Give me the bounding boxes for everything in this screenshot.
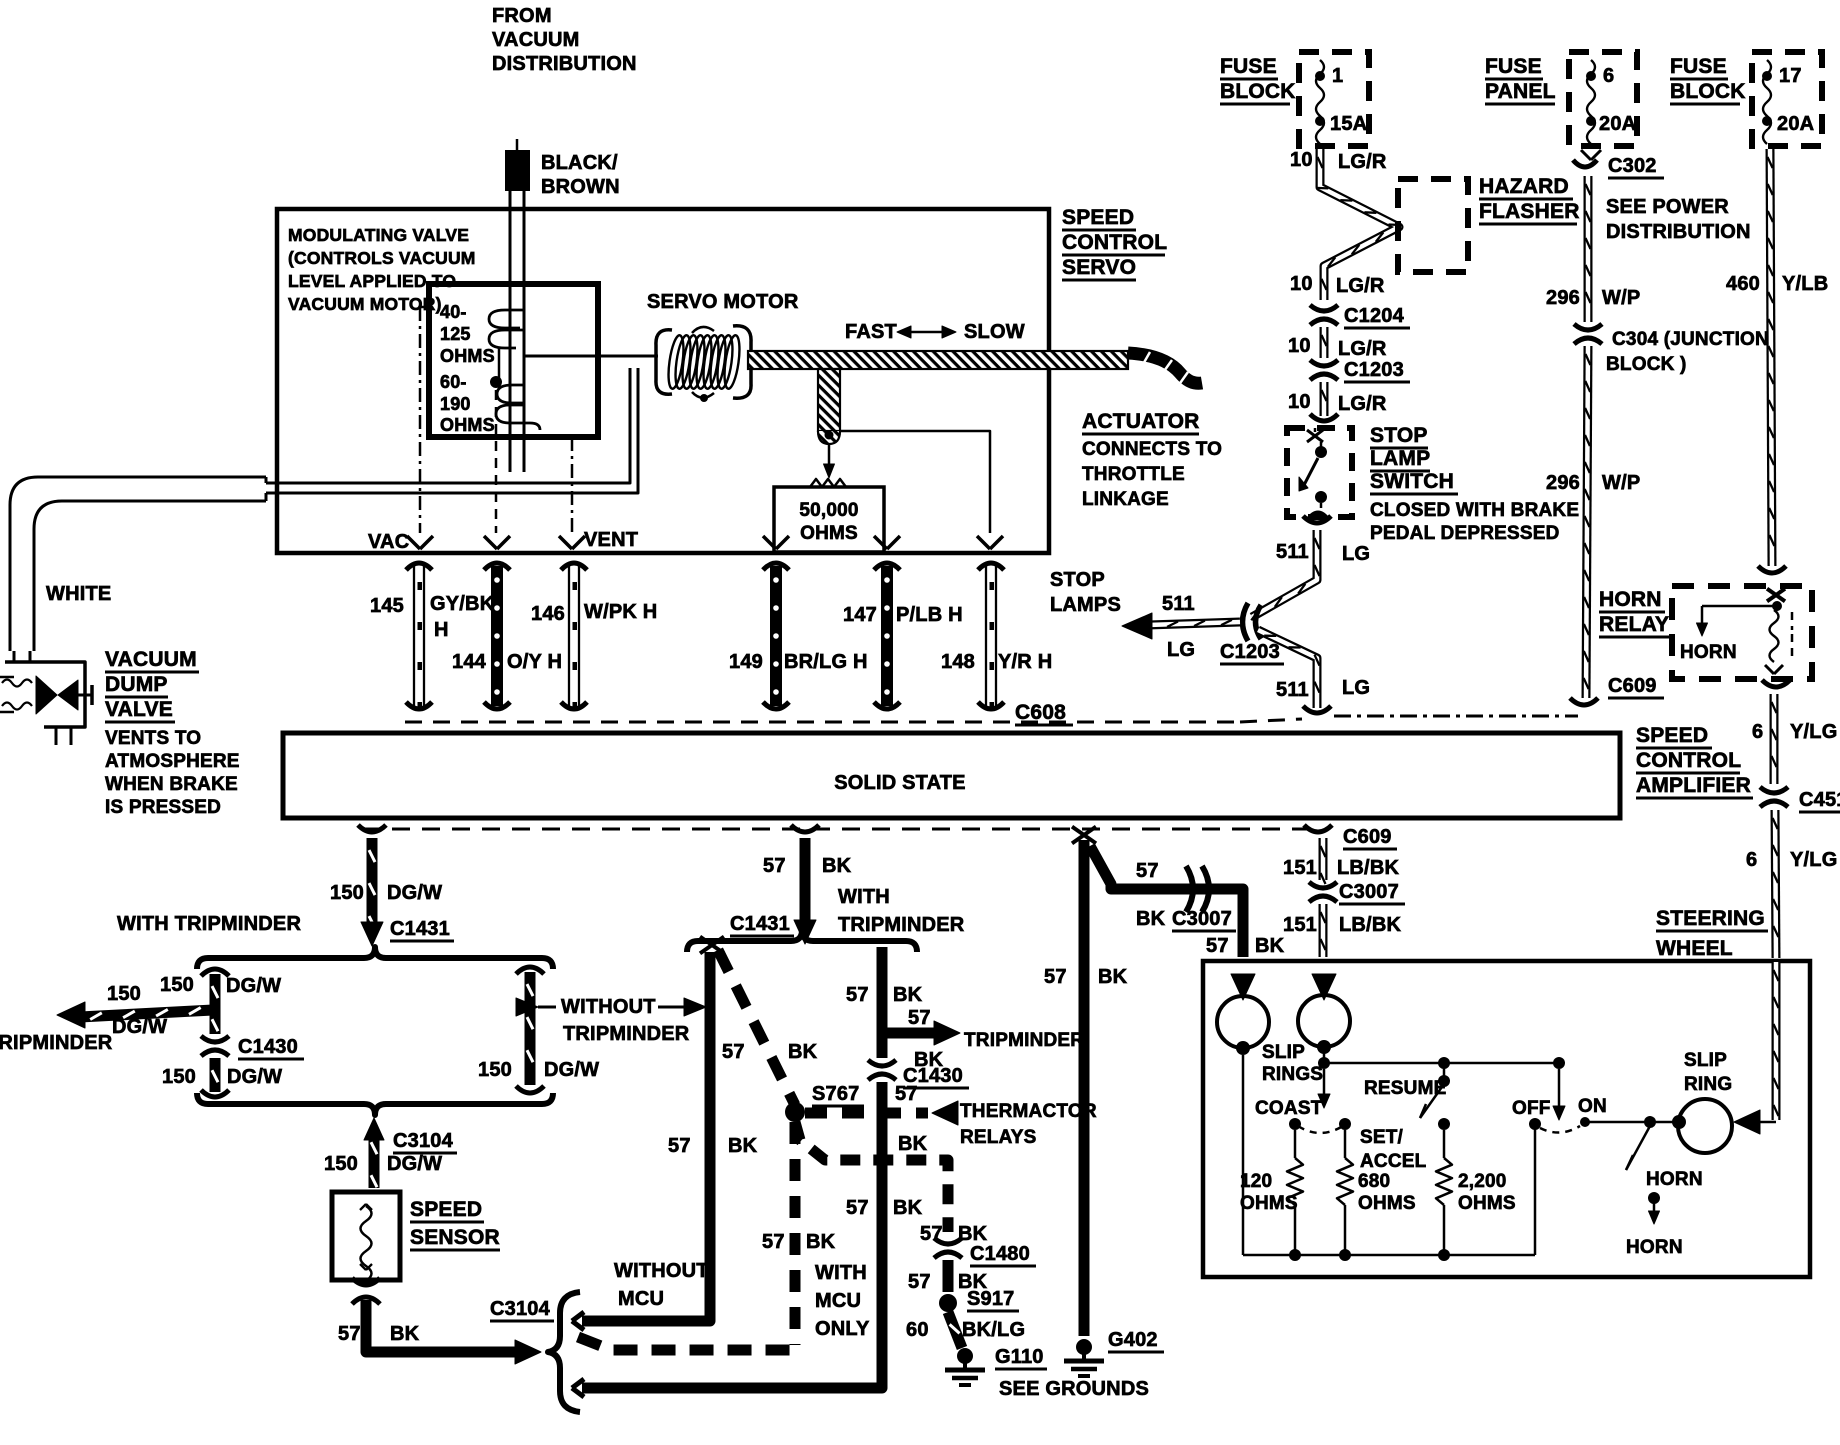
wire ON to slip ring right [1585, 1121, 1679, 1124]
svg-text:TRIPMINDER: TRIPMINDER [964, 1030, 1084, 1051]
svg-text:CONNECTS TO: CONNECTS TO [1082, 439, 1222, 460]
svg-text:BK: BK [822, 855, 852, 877]
svg-text:BK: BK [390, 1323, 420, 1345]
svg-text:1: 1 [1332, 65, 1343, 87]
svg-text:50,000: 50,000 [799, 500, 858, 521]
svg-text:57: 57 [1044, 966, 1067, 988]
terminal wire 146 W/PK H [561, 563, 587, 570]
arrow Y/LG into slip ring [1734, 1110, 1760, 1134]
svg-text:SOLID STATE: SOLID STATE [834, 772, 965, 794]
connector C1480 [934, 1238, 962, 1244]
svg-text:MODULATING VALVE: MODULATING VALVE [288, 225, 469, 245]
svg-text:2,200: 2,200 [1458, 1171, 1507, 1192]
svg-text:CONTROL: CONTROL [1062, 231, 1167, 254]
svg-text:WHITE: WHITE [46, 583, 111, 605]
svg-text:WITH TRIPMINDER: WITH TRIPMINDER [117, 913, 301, 935]
slip ring circle 1 [1217, 996, 1269, 1048]
terminal wire 149 BR/LG H [763, 563, 789, 570]
modulating valve inner box [429, 284, 598, 437]
branch 150 DG/W to tripminder (left arrow) [80, 1010, 213, 1017]
svg-text:MCU: MCU [815, 1290, 861, 1312]
wire Y/LG inside box [1772, 962, 1781, 1120]
svg-text:BK: BK [728, 1135, 758, 1157]
svg-text:BK: BK [1255, 935, 1285, 957]
resistor 2200 ohms [1443, 1130, 1446, 1158]
svg-text:C1430: C1430 [903, 1065, 963, 1087]
svg-text:SLIP: SLIP [1684, 1050, 1727, 1071]
svg-text:H: H [434, 619, 449, 641]
wire 150 DG/W amplifier to C1431 [358, 825, 386, 832]
wire 511 LG below switch [1303, 516, 1331, 523]
svg-text:151: 151 [1283, 857, 1317, 879]
arrow to coast contact [1323, 1069, 1326, 1098]
svg-text:FUSE: FUSE [1670, 55, 1727, 78]
svg-text:17: 17 [1779, 65, 1802, 87]
svg-text:10: 10 [1288, 335, 1311, 357]
svg-text:OFF: OFF [1512, 1098, 1551, 1119]
svg-text:680: 680 [1358, 1171, 1390, 1192]
svg-text:RING: RING [1684, 1074, 1732, 1095]
svg-text:57: 57 [763, 855, 786, 877]
svg-text:150: 150 [162, 1066, 196, 1088]
svg-text:SPEED: SPEED [410, 1198, 482, 1221]
wire 10 LG/R fuse to hazard flasher zigzag [1320, 149, 1399, 300]
dashed wire S767 down to MCU brace [790, 1122, 801, 1345]
svg-text:40-: 40- [440, 302, 467, 322]
slip ring circle 2 [1298, 995, 1350, 1047]
svg-text:SERVO: SERVO [1062, 256, 1136, 279]
svg-text:DG/W: DG/W [112, 1016, 167, 1038]
slip ring right circle [1672, 1115, 1686, 1129]
svg-text:57: 57 [762, 1231, 785, 1253]
svg-text:6: 6 [1603, 65, 1614, 87]
wire 150 DG/W C1430 to lower brace [210, 1058, 221, 1092]
arrow VAC [407, 536, 420, 549]
svg-text:HORN: HORN [1680, 642, 1737, 663]
svg-text:296: 296 [1546, 472, 1580, 494]
wire 6 Y/LG horn relay to C451 [1762, 680, 1790, 687]
svg-text:C1431: C1431 [730, 913, 790, 935]
svg-text:TRIPMINDER: TRIPMINDER [563, 1023, 690, 1045]
svg-text:150: 150 [160, 974, 194, 996]
svg-text:BLOCK: BLOCK [1670, 80, 1746, 103]
svg-text:C1480: C1480 [970, 1243, 1030, 1265]
terminal wire 145 GY/BK H [406, 563, 432, 570]
svg-text:10: 10 [1290, 149, 1313, 171]
svg-text:57: 57 [846, 984, 869, 1006]
brace C1431 (left group) [197, 947, 553, 969]
wire 296 W/P C304 down to C609 [1586, 346, 1588, 698]
wire 460 Y/LB fuse block to horn relay [1770, 149, 1772, 566]
connector C3007 (black wire) [1186, 866, 1193, 912]
modulating valve upper coil [489, 310, 524, 348]
svg-text:IS PRESSED: IS PRESSED [105, 797, 221, 818]
wire 10 LG/R C1203 to stop lamp switch [1320, 382, 1329, 416]
brace C3104 split [548, 1292, 580, 1412]
connector C609 (amplifier) [1304, 825, 1332, 832]
svg-text:120: 120 [1240, 1171, 1272, 1192]
connector C609 (horn feed) [1570, 698, 1598, 705]
speed control amplifier SOLID STATE box [283, 733, 1620, 818]
svg-text:COAST: COAST [1255, 1098, 1323, 1119]
svg-text:10: 10 [1290, 273, 1313, 295]
svg-text:460: 460 [1726, 273, 1760, 295]
svg-text:BK: BK [958, 1223, 988, 1245]
svg-text:ON: ON [1578, 1096, 1607, 1117]
svg-text:TRIPMINDER: TRIPMINDER [0, 1032, 113, 1054]
svg-text:C1203: C1203 [1220, 641, 1280, 663]
svg-text:PANEL: PANEL [1485, 80, 1556, 103]
svg-text:GY/BK: GY/BK [430, 593, 495, 615]
svg-text:Y/LG: Y/LG [1790, 721, 1837, 743]
connector C1203 stop lamps [1243, 603, 1249, 641]
svg-text:C1431: C1431 [390, 918, 450, 940]
svg-text:W/P: W/P [1602, 472, 1640, 494]
svg-text:WITH: WITH [838, 886, 890, 908]
dash-dot channel to VENT terminal [571, 437, 574, 533]
svg-text:C3007: C3007 [1172, 908, 1232, 930]
resume switch blade [1443, 1063, 1446, 1078]
svg-text:BK: BK [898, 1133, 928, 1155]
svg-text:OHMS: OHMS [1458, 1193, 1516, 1214]
svg-text:LG: LG [1167, 639, 1195, 661]
fuse block 3 box [1752, 52, 1822, 146]
speed control servo box [277, 209, 1049, 553]
svg-text:HORN: HORN [1646, 1169, 1703, 1190]
svg-text:SLOW: SLOW [964, 321, 1025, 343]
label WITHOUT TRIPMINDER with arrows [516, 998, 538, 1016]
off/on contact arm [1558, 1069, 1561, 1110]
svg-text:OHMS: OHMS [1358, 1193, 1416, 1214]
svg-text:57: 57 [846, 1197, 869, 1219]
svg-text:10: 10 [1288, 391, 1311, 413]
svg-text:57: 57 [668, 1135, 691, 1157]
svg-text:STEERING: STEERING [1656, 907, 1765, 930]
wire actuator to terminal 148 [840, 431, 990, 533]
fuse F17 20A [1763, 60, 1771, 144]
stop lamp switch contacts [1307, 430, 1323, 442]
svg-text:LB/BK: LB/BK [1339, 914, 1401, 936]
svg-text:20A: 20A [1777, 113, 1814, 135]
wire 151 LB/BK C3007 to steering wheel [1319, 904, 1328, 957]
svg-text:ACCEL: ACCEL [1360, 1151, 1427, 1172]
svg-text:VACUUM: VACUUM [492, 29, 580, 51]
svg-text:148: 148 [941, 651, 975, 673]
horn relay coil and contact [1772, 601, 1782, 611]
arrow terminal 149 [763, 536, 776, 549]
svg-text:OHMS: OHMS [440, 346, 495, 366]
svg-text:ACTUATOR: ACTUATOR [1082, 410, 1199, 433]
svg-text:VENT: VENT [584, 529, 638, 551]
dashed diagonal wire 57 BK to S767 [718, 950, 795, 1105]
svg-text:C609: C609 [1608, 675, 1657, 697]
dashed branch S767 to C1480 [795, 1122, 948, 1232]
svg-text:C1203: C1203 [1344, 359, 1404, 381]
wire 57 BK branch to C3007 and steering wheel [1090, 846, 1243, 957]
svg-text:146: 146 [531, 603, 565, 625]
svg-text:WHEN BRAKE: WHEN BRAKE [105, 774, 238, 795]
svg-text:HAZARD: HAZARD [1479, 175, 1569, 198]
arrow terminal 147 [874, 536, 887, 549]
resistor bottom rail [1243, 1254, 1535, 1257]
arrow into C3104 brace [364, 1118, 384, 1140]
arrow VENT [559, 536, 572, 549]
dashed line below amplifier [362, 828, 1317, 831]
svg-text:SPEED: SPEED [1062, 206, 1134, 229]
svg-text:LB/BK: LB/BK [1337, 857, 1399, 879]
fuse block 1 box [1299, 52, 1369, 146]
svg-text:511: 511 [1276, 541, 1309, 563]
svg-text:SET/: SET/ [1360, 1127, 1404, 1148]
wire 57 BK amplifier to G402 [1072, 827, 1096, 844]
svg-text:CONTROL: CONTROL [1636, 749, 1741, 772]
splice S917 [939, 1294, 957, 1312]
coast/set contacts with dashed wiper [1289, 1118, 1301, 1130]
svg-text:(CONTROLS VACUUM: (CONTROLS VACUUM [288, 248, 476, 268]
svg-text:C3104: C3104 [393, 1130, 454, 1152]
svg-text:149: 149 [729, 651, 763, 673]
svg-text:BK: BK [1098, 966, 1128, 988]
svg-text:FLASHER: FLASHER [1479, 200, 1580, 223]
50000 ohms resistor box [774, 487, 884, 552]
svg-text:WITHOUT: WITHOUT [614, 1260, 709, 1282]
connector C451 [1760, 787, 1788, 793]
svg-text:150: 150 [107, 983, 141, 1005]
svg-text:OHMS: OHMS [1240, 1193, 1298, 1214]
svg-text:BR/LG H: BR/LG H [784, 651, 868, 673]
connector C1204 [1310, 305, 1338, 311]
wire modulating valve to servo motor [524, 355, 658, 358]
fuse F1 15A [1316, 60, 1324, 144]
svg-text:PEDAL DEPRESSED: PEDAL DEPRESSED [1370, 523, 1560, 544]
svg-text:BK: BK [893, 984, 923, 1006]
svg-text:LG/R: LG/R [1338, 151, 1387, 173]
svg-text:RELAY: RELAY [1599, 613, 1669, 636]
wire wiper to 50000 ohms [828, 444, 831, 468]
wire 511 LG to stop lamps arrow [1148, 622, 1240, 625]
svg-text:FAST: FAST [845, 321, 897, 343]
dash-dot channel to VAC terminal [420, 306, 429, 309]
vacuum passage tube to servo motor [266, 368, 630, 483]
svg-text:OHMS: OHMS [440, 415, 495, 435]
arrow center terminal [484, 536, 497, 549]
svg-text:150: 150 [324, 1153, 358, 1175]
svg-text:LG: LG [1342, 677, 1370, 699]
svg-text:WITH: WITH [815, 1262, 867, 1284]
connector C304 junction block [1574, 324, 1602, 330]
branch arrow to TRIPMINDER (right) [882, 1028, 935, 1039]
svg-text:BK: BK [1136, 908, 1166, 930]
svg-text:LINKAGE: LINKAGE [1082, 489, 1169, 510]
svg-text:RINGS: RINGS [1262, 1064, 1323, 1085]
svg-text:THERMACTOR: THERMACTOR [960, 1101, 1097, 1122]
switch common bus [1318, 1057, 1330, 1069]
horn switch blade [1626, 1126, 1650, 1170]
svg-text:60: 60 [906, 1319, 929, 1341]
svg-text:C3104: C3104 [490, 1298, 551, 1320]
svg-text:C3007: C3007 [1339, 881, 1399, 903]
svg-text:LAMP: LAMP [1370, 447, 1430, 470]
dashed channel from wiper [495, 390, 498, 533]
svg-text:STOP: STOP [1370, 424, 1428, 447]
svg-text:VACUUM: VACUUM [105, 648, 197, 671]
svg-text:C304 (JUNCTION: C304 (JUNCTION [1612, 329, 1769, 350]
dashed bus above amplifier [405, 721, 1240, 724]
steering wheel box [1203, 961, 1810, 1277]
wire 151 LB/BK C609 to C3007 [1319, 838, 1328, 880]
svg-text:C609: C609 [1343, 826, 1392, 848]
connector C302 [1581, 150, 1591, 160]
svg-text:150: 150 [478, 1059, 512, 1081]
svg-text:DG/W: DG/W [227, 1066, 282, 1088]
svg-text:511: 511 [1276, 679, 1309, 701]
svg-text:SENSOR: SENSOR [410, 1226, 500, 1249]
terminal wire 144 O/Y H [484, 563, 510, 570]
svg-text:LG/R: LG/R [1338, 393, 1387, 415]
svg-text:DISTRIBUTION: DISTRIBUTION [492, 53, 637, 75]
splice S767 [785, 1102, 805, 1122]
svg-text:BLOCK: BLOCK [1220, 80, 1296, 103]
resistor 120 ohms [1294, 1130, 1297, 1158]
svg-text:151: 151 [1283, 914, 1317, 936]
slip ring 2 arrow [1312, 974, 1336, 1000]
svg-text:Y/LG: Y/LG [1790, 849, 1837, 871]
servo motor [656, 330, 672, 394]
wire 511 LG lower branch to bus [1258, 630, 1317, 708]
svg-text:SWITCH: SWITCH [1370, 470, 1454, 493]
svg-text:ONLY: ONLY [815, 1318, 870, 1340]
connector into horn relay [1758, 566, 1786, 573]
wire 60 BK/LG S917 to G110 [948, 1312, 962, 1348]
svg-text:STOP: STOP [1050, 569, 1105, 591]
svg-text:DISTRIBUTION: DISTRIBUTION [1606, 221, 1751, 243]
svg-text:57: 57 [338, 1323, 361, 1345]
svg-text:6: 6 [1746, 849, 1757, 871]
svg-text:BLOCK ): BLOCK ) [1606, 354, 1687, 375]
svg-text:G110: G110 [995, 1346, 1044, 1368]
brace C1431 (center) [687, 930, 917, 952]
svg-text:57: 57 [1206, 935, 1229, 957]
speed sensor box [332, 1192, 400, 1280]
svg-text:VALVE: VALVE [105, 698, 173, 721]
svg-text:TRIPMINDER: TRIPMINDER [838, 914, 965, 936]
svg-text:DG/W: DG/W [387, 882, 442, 904]
svg-text:ATMOSPHERE: ATMOSPHERE [105, 751, 240, 772]
svg-text:W/P: W/P [1602, 287, 1640, 309]
svg-text:BK: BK [788, 1041, 818, 1063]
svg-text:DG/W: DG/W [387, 1153, 442, 1175]
svg-text:LG: LG [1342, 543, 1370, 565]
svg-text:S767: S767 [812, 1083, 860, 1105]
svg-text:W/PK H: W/PK H [584, 601, 657, 623]
svg-text:VENTS TO: VENTS TO [105, 728, 201, 749]
svg-text:C1430: C1430 [238, 1036, 298, 1058]
svg-text:O/Y H: O/Y H [507, 651, 562, 673]
hazard flasher box [1398, 179, 1468, 272]
fuse F6 20A [1587, 60, 1595, 144]
svg-text:6: 6 [1752, 721, 1763, 743]
horn arrow [1648, 1192, 1660, 1204]
svg-text:57: 57 [908, 1271, 931, 1293]
svg-text:SEE POWER: SEE POWER [1606, 196, 1729, 218]
wire 57 BK C1480 to S917 [943, 1260, 954, 1292]
svg-text:511: 511 [1162, 593, 1195, 615]
connector C1430 (center) [868, 1060, 896, 1066]
wire 57 BK speed sensor to C3104 [352, 1278, 380, 1285]
actuator cable hook end [1128, 353, 1202, 383]
wire 10 LG/R C1204 to C1203 [1320, 327, 1329, 358]
terminal wire 147 P/LB H [874, 563, 900, 570]
svg-text:57: 57 [908, 1007, 931, 1029]
svg-text:P/LB H: P/LB H [896, 604, 963, 626]
wire 150 DG/W to speed sensor [369, 1130, 380, 1188]
modulating valve lower coil [496, 385, 540, 430]
svg-text:BROWN: BROWN [541, 176, 620, 198]
vacuum dump valve [13, 651, 16, 662]
svg-text:C302: C302 [1608, 155, 1657, 177]
svg-text:SPEED: SPEED [1636, 724, 1708, 747]
svg-text:145: 145 [370, 595, 404, 617]
resistor 680 ohms [1344, 1130, 1347, 1158]
connector C1430 (left) [201, 1036, 229, 1042]
vacuum hose from distribution (black/brown) [505, 150, 530, 191]
svg-text:VACUUM MOTOR): VACUUM MOTOR) [288, 294, 442, 314]
svg-text:LG/R: LG/R [1338, 338, 1387, 360]
svg-text:Y/R H: Y/R H [998, 651, 1052, 673]
svg-text:MCU: MCU [618, 1288, 664, 1310]
svg-text:CLOSED WITH BRAKE: CLOSED WITH BRAKE [1370, 500, 1579, 521]
svg-text:FUSE: FUSE [1485, 55, 1542, 78]
wire slip ring 1 to resistor rail [1242, 1055, 1245, 1255]
svg-text:60-: 60- [440, 372, 467, 392]
wire 57 BK C1430 down to MCU brace [582, 1082, 882, 1388]
svg-text:144: 144 [452, 651, 487, 673]
svg-text:DG/W: DG/W [226, 975, 281, 997]
svg-text:20A: 20A [1599, 113, 1636, 135]
svg-text:296: 296 [1546, 287, 1580, 309]
svg-text:125: 125 [440, 324, 471, 344]
svg-text:OHMS: OHMS [800, 523, 858, 544]
wiper node dot [498, 348, 501, 378]
brace C3104 (left group lower) [197, 1093, 553, 1115]
svg-text:HORN: HORN [1626, 1237, 1683, 1258]
svg-text:RELAYS: RELAYS [960, 1127, 1037, 1148]
svg-text:BLACK/: BLACK/ [541, 152, 618, 174]
svg-text:S917: S917 [967, 1288, 1015, 1310]
wire 150 DG/W right leg (without tripminder) [516, 967, 544, 974]
svg-text:SERVO MOTOR: SERVO MOTOR [647, 291, 799, 313]
svg-text:C1204: C1204 [1344, 305, 1405, 327]
svg-text:LAMPS: LAMPS [1050, 594, 1121, 616]
connector C3007 (LB/BK) [1309, 882, 1337, 888]
svg-text:BK/LG: BK/LG [962, 1319, 1025, 1341]
white vacuum tube [10, 477, 266, 651]
actuator rod hatched [748, 351, 1128, 369]
wire 6 Y/LG C451 to steering wheel [1775, 810, 1776, 958]
svg-text:BK: BK [893, 1197, 923, 1219]
fuse panel box [1569, 52, 1637, 146]
wire 150 DG/W left leg to C1430 [201, 969, 229, 976]
wire rail to OFF contact [1534, 1128, 1537, 1255]
svg-text:Y/LB: Y/LB [1782, 273, 1828, 295]
wire 57 BK brace to C1430 (center) [877, 947, 888, 1058]
svg-text:VAC: VAC [368, 531, 409, 553]
svg-text:BK: BK [806, 1231, 836, 1253]
wire 57 BK amplifier to C1431 (center) [791, 825, 819, 832]
svg-text:WITHOUT: WITHOUT [561, 996, 656, 1018]
svg-text:190: 190 [440, 394, 471, 414]
svg-text:THROTTLE: THROTTLE [1082, 464, 1185, 485]
